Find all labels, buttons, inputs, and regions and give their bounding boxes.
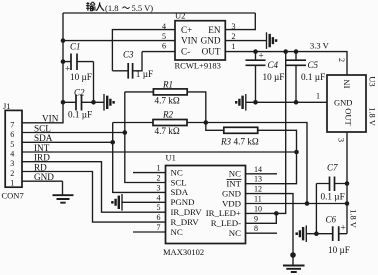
svg-text:OUT: OUT: [202, 46, 221, 56]
svg-text:R_DRV: R_DRV: [171, 217, 200, 227]
ground (signal, right of C2): [104, 94, 114, 111]
svg-text:U3: U3: [368, 76, 378, 86]
wire SCL from J1: [22, 132, 125, 134]
svg-text:11: 11: [254, 195, 262, 204]
svg-text:1.8 V: 1.8 V: [368, 107, 378, 127]
node junction dot C6 left: [314, 231, 319, 236]
svg-text:PGND: PGND: [171, 197, 195, 207]
svg-text:NC: NC: [229, 228, 241, 238]
svg-text:6: 6: [162, 42, 166, 51]
ground (J1 GND): [53, 181, 74, 203]
node junction dot VDD/Rnet: [305, 201, 310, 206]
svg-text:2: 2: [10, 169, 14, 178]
wire RD from J1 to U1 pin6: [22, 172, 166, 223]
svg-text:C2: C2: [74, 88, 85, 98]
svg-text:GND: GND: [34, 172, 54, 182]
node junction dot C1 tap: [61, 59, 66, 64]
svg-text:7: 7: [157, 223, 161, 232]
svg-text:IN: IN: [341, 80, 351, 89]
node junction dot SCL: [123, 130, 128, 135]
svg-text:VIN: VIN: [42, 114, 59, 124]
svg-text:10 µF: 10 µF: [70, 72, 92, 82]
capacitor C1: [63, 42, 94, 83]
wire C1 right riser: [93, 62, 95, 103]
svg-text:CON7: CON7: [2, 191, 24, 201]
svg-text:GND: GND: [334, 98, 352, 108]
svg-text:3: 3: [337, 138, 346, 142]
svg-text:NC: NC: [171, 167, 183, 177]
wire IRD from J1 to U1 pin5: [22, 162, 166, 213]
svg-text:C5: C5: [308, 60, 319, 70]
capacitor C6: [316, 215, 349, 256]
svg-text:3: 3: [157, 183, 161, 192]
svg-text:R3: R3: [220, 136, 231, 146]
wire SCL riser R1 to U1 pin2: [125, 92, 166, 183]
svg-text:3: 3: [232, 22, 236, 31]
node junction dot C1/C2 right: [91, 100, 96, 105]
ground (signal, C6 left): [297, 225, 317, 242]
node junction dot LED riser: [283, 49, 288, 54]
svg-text:10: 10: [254, 204, 262, 213]
svg-text:0.1 µF: 0.1 µF: [68, 110, 92, 120]
wire U2 pin4 C+: [112, 30, 175, 71]
svg-text:SDA: SDA: [171, 187, 189, 197]
svg-text:0.1 µF: 0.1 µF: [301, 72, 325, 82]
ground (signal, U2 GND): [267, 32, 277, 49]
wire GND from J1: [22, 180, 63, 182]
node VIN-input label 输入(1.8~5.5 V): [86, 2, 130, 11]
svg-text:R_LED-: R_LED-: [211, 218, 241, 228]
wire SDA from J1: [22, 141, 113, 143]
svg-text:10 µF: 10 µF: [263, 72, 285, 82]
svg-text:9: 9: [254, 214, 258, 223]
svg-text:6: 6: [157, 213, 161, 222]
svg-text:4.7 kΩ: 4.7 kΩ: [234, 136, 259, 146]
svg-text:14: 14: [254, 165, 262, 174]
svg-text:1 µF: 1 µF: [136, 69, 153, 79]
svg-text:0.1 µF: 0.1 µF: [321, 192, 345, 202]
wire U3 OUT 1.8V vertical: [346, 132, 348, 234]
svg-text:NC: NC: [171, 227, 183, 237]
svg-text:10 µF: 10 µF: [328, 245, 350, 255]
svg-text:5: 5: [157, 203, 161, 212]
svg-text:12: 12: [254, 185, 262, 194]
connector J1: [2, 101, 24, 201]
wire U2 pin2 GND: [226, 40, 267, 42]
svg-text:R1: R1: [162, 79, 173, 89]
wire U2 VIN branch: [63, 40, 175, 42]
wire main input vertical: [22, 13, 63, 123]
svg-text:R2: R2: [162, 110, 173, 120]
node junction dot C7 right: [345, 181, 350, 186]
wire top input rail: [63, 12, 255, 14]
svg-text:5.5 V): 5.5 V): [132, 3, 154, 13]
svg-text:SCL: SCL: [34, 123, 51, 133]
svg-text:MAX30102: MAX30102: [163, 247, 204, 257]
capacitor C4: [246, 51, 285, 103]
svg-text:2: 2: [232, 32, 236, 41]
svg-text:1: 1: [10, 179, 14, 188]
wire INT from J1 to R3/U1 net: [22, 151, 297, 153]
svg-text:C-: C-: [181, 46, 190, 56]
ground (signal, PGND) mirrored: [112, 194, 122, 211]
capacitor C2: [63, 88, 104, 120]
wire 3.3V rail from U2 OUT to U3 IN: [226, 52, 347, 75]
node junction dot U2 VIN branch: [61, 38, 66, 43]
svg-text:4.7 kΩ: 4.7 kΩ: [155, 126, 180, 136]
svg-text:13: 13: [254, 175, 262, 184]
svg-text:1: 1: [157, 164, 161, 173]
svg-text:4: 4: [10, 150, 14, 159]
resistor R3: [206, 123, 297, 184]
regulator U3: [327, 75, 378, 132]
svg-text:C6: C6: [326, 215, 337, 225]
svg-text:1: 1: [232, 42, 236, 51]
node junction dot C5 top: [294, 49, 299, 54]
resistor R1: [125, 79, 206, 122]
node junction dot INT net: [294, 150, 299, 155]
svg-text:8: 8: [254, 224, 258, 233]
ground (main, below U1): [283, 266, 305, 273]
svg-text:IR_LED+: IR_LED+: [206, 208, 241, 218]
svg-text:3: 3: [10, 159, 14, 168]
svg-text:SCL: SCL: [171, 177, 187, 187]
svg-text:GND: GND: [222, 188, 241, 198]
svg-text:RD: RD: [34, 162, 47, 172]
node junction dot C4 top: [253, 49, 258, 54]
wire ground riser C7/C6 left: [315, 184, 317, 234]
svg-text:INT: INT: [226, 179, 241, 189]
node junction dot LED pins: [274, 211, 279, 216]
svg-text:C4: C4: [268, 60, 279, 70]
svg-text:C7: C7: [327, 163, 338, 173]
svg-text:C+: C+: [181, 25, 192, 35]
svg-text:C3: C3: [123, 50, 134, 60]
svg-text:+: +: [341, 223, 346, 233]
node junction dot C4 bottom: [253, 100, 258, 105]
IC U1 MAX30102: [163, 153, 246, 258]
wire GND net to U3 pin1: [246, 101, 327, 103]
svg-text:5: 5: [162, 32, 166, 41]
svg-text:2: 2: [157, 174, 161, 183]
node junction dot SDA: [110, 140, 115, 145]
svg-text:+: +: [259, 51, 264, 61]
wire SDA riser R2 to U1 pin3: [113, 123, 166, 193]
svg-text:3.3 V: 3.3 V: [310, 41, 330, 51]
capacitor C7: [316, 163, 347, 202]
svg-text:SDA: SDA: [34, 133, 53, 143]
svg-text:GND: GND: [201, 36, 221, 46]
capacitor C3: [112, 50, 153, 79]
svg-text:NC: NC: [229, 169, 241, 179]
svg-text:7: 7: [10, 120, 14, 129]
IC U2 RCWL+9183: [175, 10, 226, 70]
capacitor C5: [286, 52, 325, 103]
svg-text:U1: U1: [166, 153, 176, 163]
node junction dot VDD/1.8V: [345, 201, 350, 206]
svg-text:EN: EN: [208, 25, 221, 35]
node junction dot C2 tap: [61, 100, 66, 105]
svg-text:4: 4: [157, 193, 161, 202]
svg-text:C1: C1: [70, 42, 81, 52]
svg-text:5: 5: [10, 140, 14, 149]
svg-text:OUT: OUT: [344, 108, 354, 126]
node junction dot GND drop: [290, 252, 296, 258]
svg-text:6: 6: [10, 130, 14, 139]
wire U2 pin6 C-: [142, 51, 175, 53]
svg-text:INT: INT: [34, 143, 50, 153]
node junction dot R1/R2: [204, 120, 209, 125]
svg-text:IRD: IRD: [34, 153, 50, 163]
svg-text:U2: U2: [175, 10, 185, 20]
wire EN riser: [226, 13, 255, 30]
svg-text:VIN: VIN: [181, 36, 198, 46]
svg-text:RCWL+9183: RCWL+9183: [175, 60, 221, 70]
svg-text:VDD: VDD: [222, 198, 241, 208]
svg-text:(1.8: (1.8: [105, 3, 118, 13]
svg-text:1.8 V: 1.8 V: [349, 209, 359, 229]
svg-text:1: 1: [316, 92, 320, 101]
ground (signal, left of GND net): [236, 94, 246, 111]
node junction dot C5 bottom: [294, 100, 299, 105]
resistor R2: [113, 110, 307, 204]
svg-text:IR_DRV: IR_DRV: [171, 207, 203, 217]
svg-text:4.7 kΩ: 4.7 kΩ: [155, 95, 180, 105]
svg-text:2: 2: [337, 58, 346, 62]
